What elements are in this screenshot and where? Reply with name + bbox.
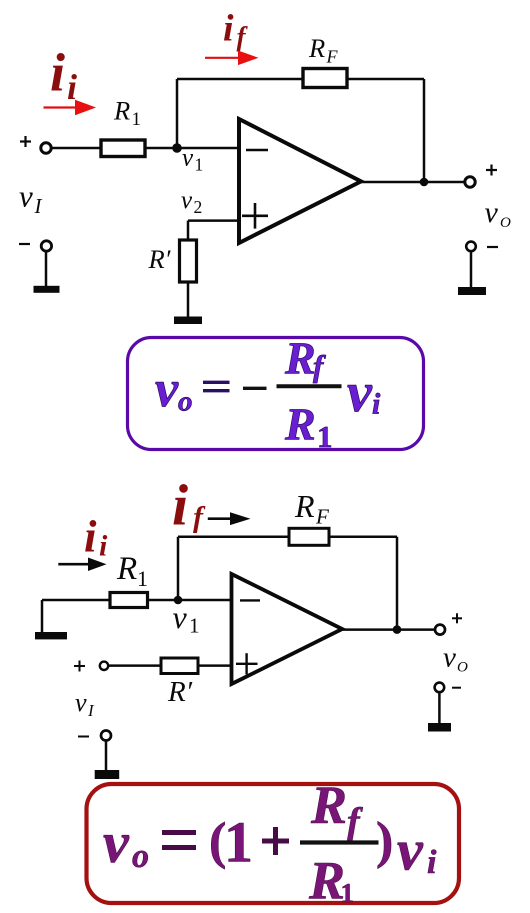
svg-text:v: v [75, 688, 87, 717]
svg-text:R: R [308, 851, 345, 911]
svg-text:i: i [84, 512, 97, 562]
svg-text:v: v [397, 818, 424, 883]
svg-text:1: 1 [137, 566, 148, 591]
svg-text:v: v [155, 361, 179, 418]
svg-text:R: R [284, 399, 316, 450]
svg-text:v: v [103, 810, 130, 875]
svg-text:o: o [132, 838, 149, 875]
svg-text:1: 1 [317, 419, 333, 454]
svg-text:i: i [50, 43, 65, 103]
svg-text:i: i [99, 530, 108, 563]
svg-text:R: R [308, 33, 325, 63]
svg-text:O: O [500, 215, 511, 231]
svg-text:v: v [181, 187, 193, 214]
svg-text:R: R [284, 333, 316, 384]
svg-text:v: v [485, 196, 499, 229]
svg-text:v: v [443, 642, 456, 674]
svg-text:i: i [427, 844, 437, 881]
svg-text:i: i [172, 473, 188, 538]
svg-text:2: 2 [194, 197, 203, 217]
svg-text:F: F [315, 505, 329, 529]
svg-text:R′: R′ [148, 244, 172, 274]
svg-text:F: F [326, 47, 339, 67]
svg-text:1: 1 [341, 878, 355, 908]
svg-text:i: i [372, 388, 381, 421]
svg-text:i: i [223, 8, 234, 50]
svg-text:o: o [178, 386, 193, 418]
svg-text:1: 1 [189, 614, 200, 638]
svg-text:v: v [173, 599, 188, 635]
svg-text:v: v [182, 145, 194, 172]
svg-text:1: 1 [132, 109, 142, 130]
svg-text:): ) [376, 813, 393, 870]
svg-text:v: v [19, 179, 33, 214]
svg-text:R: R [113, 96, 130, 126]
svg-text:v: v [347, 362, 373, 424]
svg-text:R: R [310, 775, 347, 835]
svg-text:R: R [116, 551, 137, 587]
svg-text:R′: R′ [167, 676, 193, 708]
svg-text:1: 1 [224, 810, 253, 875]
svg-text:R: R [294, 488, 315, 524]
svg-text:1: 1 [195, 155, 204, 175]
svg-text:I: I [34, 194, 43, 218]
svg-text:O: O [457, 660, 468, 676]
